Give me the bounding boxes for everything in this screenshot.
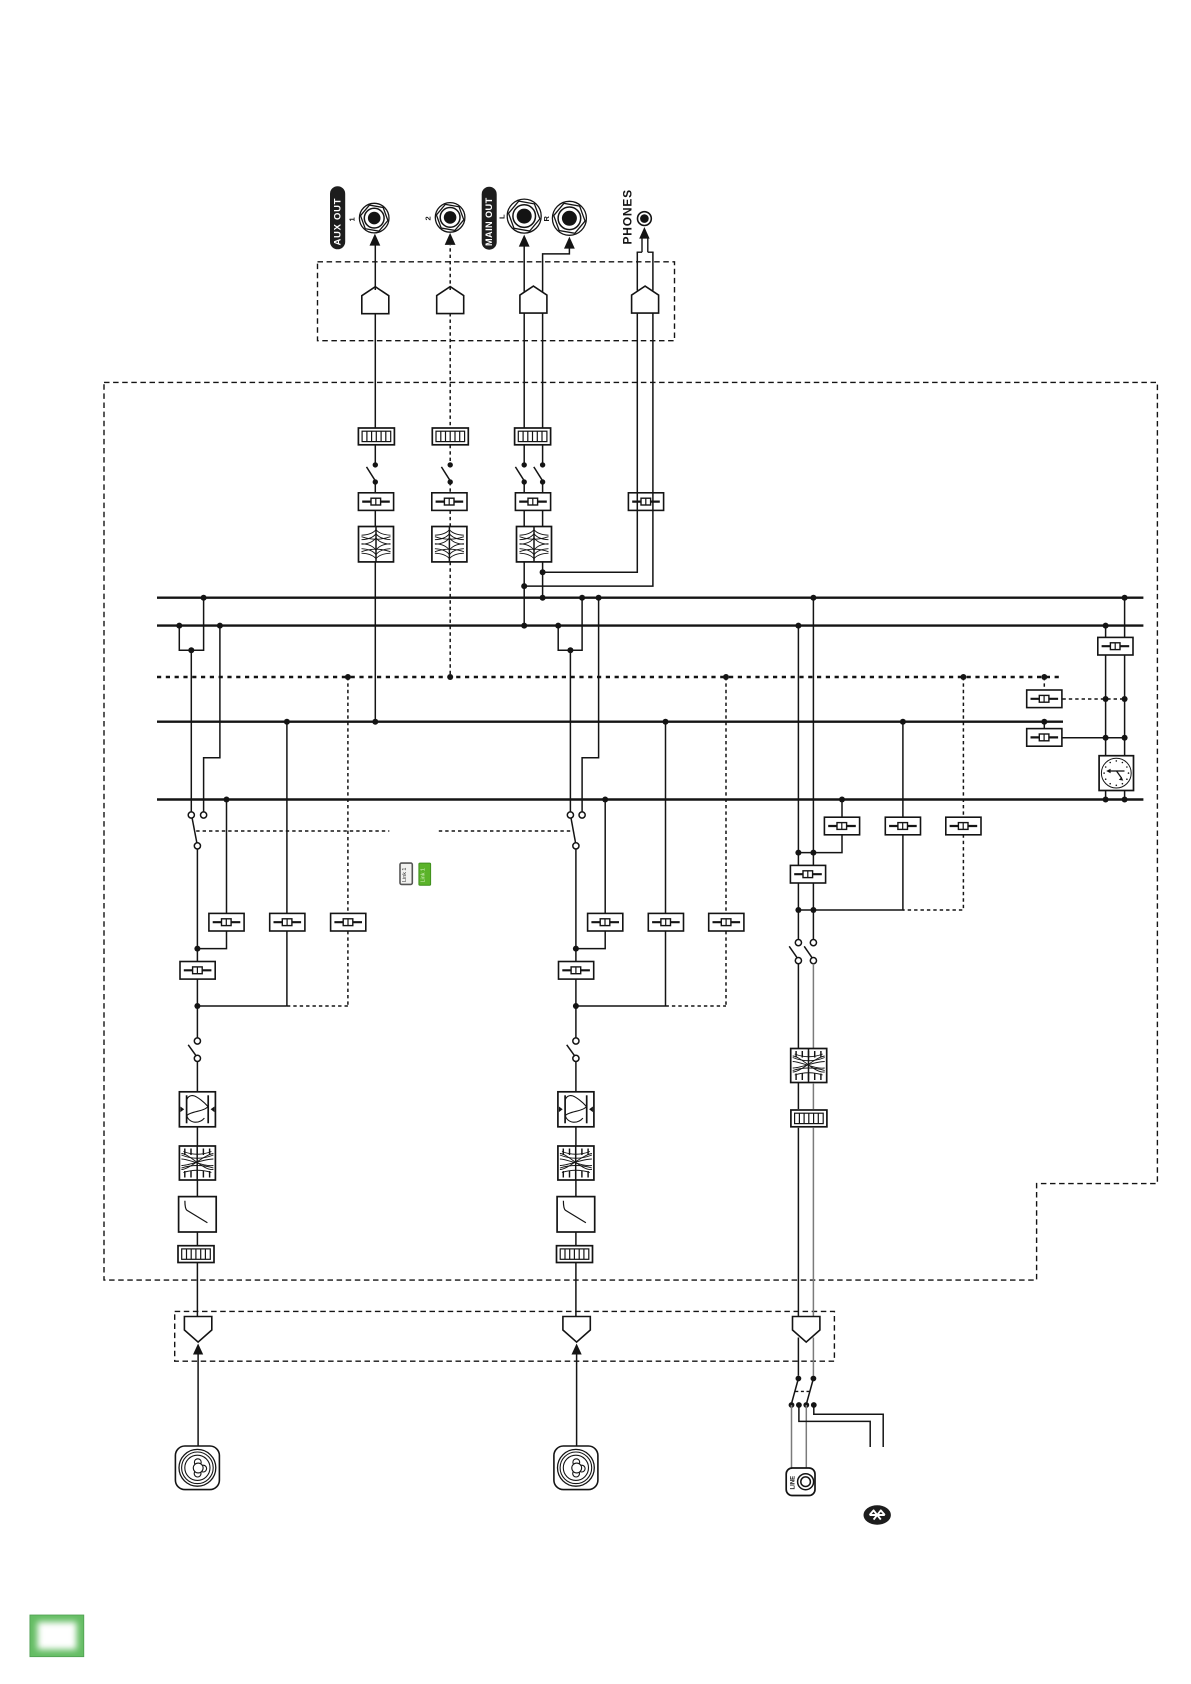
wire fader AUX1 to EQ [374, 511, 376, 527]
svg-text:MAIN OUT: MAIN OUT [484, 197, 494, 246]
jack AUX OUT 1 [358, 203, 390, 233]
junction main L on bus 2 [521, 623, 527, 629]
wire ch2 filter to meter [575, 1232, 577, 1246]
switch AUX OUT 1 [367, 462, 378, 485]
switch AUX OUT 2 [441, 462, 453, 485]
junction ch1 pre-fader tap [194, 946, 200, 952]
junction dashed on FX L [1103, 696, 1109, 702]
junction stereo aux1 to R [810, 850, 816, 856]
svg-text:1: 1 [348, 217, 357, 221]
fader FX to monitor bus [1027, 729, 1062, 747]
junction ch2 jog on bus 1 [596, 595, 602, 601]
low cut filter ch2 [557, 1197, 595, 1232]
wire amp MAIN L down [523, 314, 525, 429]
wire stereo R preamp to switch (grey) [812, 1338, 814, 1376]
arrow to jack MAIN OUT R [564, 237, 575, 249]
arrow stub to jack PHONES (stereo) [637, 227, 654, 291]
wire phones R tap [524, 493, 653, 586]
Bluetooth logo [864, 1505, 891, 1524]
wire amp MAIN R down [542, 314, 544, 429]
arrow to jack MAIN OUT L [519, 235, 530, 292]
wire ch2 switch pole down [575, 849, 577, 1038]
wire solid fader from bus 4 [1043, 722, 1045, 729]
LINE connector [786, 1468, 815, 1496]
fader ch2 aux2 send [648, 913, 683, 931]
meter MAIN OUT [515, 428, 551, 445]
junction main R to phones [540, 569, 546, 575]
wire stereo R switch to EQ (grey) [812, 964, 814, 1048]
wire ch1 switch pole down [196, 849, 198, 1038]
junction dashed on FX R [1122, 696, 1128, 702]
input preamp dashed box [175, 1311, 835, 1361]
junction ch2 pre-fader tap [573, 946, 579, 952]
MAIN OUT label pill [482, 187, 497, 250]
junction ch2 aux1 on bus 5 [602, 797, 608, 803]
arrow into preamp ch2 [572, 1344, 582, 1355]
preamp ch2 [563, 1317, 590, 1343]
fader ch1 aux2 send [270, 913, 305, 931]
wire ch1 aux2 fader to post junction [286, 931, 288, 1006]
wire amp PHONES R down [652, 314, 654, 493]
wire ch1 U to switch contact [190, 650, 192, 812]
wire ch2 jack to preamp [576, 1355, 578, 1447]
wire ch2 bus assign U [558, 598, 582, 651]
brand logo [30, 1615, 84, 1657]
wire ch1 EQ to filter [196, 1180, 198, 1197]
AUX OUT label pill [330, 186, 345, 249]
amp MAIN OUT [520, 286, 547, 313]
wire stereo L from bus 2 down [797, 626, 799, 943]
wire fader AUX2 to EQ (dashed) [449, 511, 451, 527]
EQ ch2 [558, 1146, 594, 1180]
wire ch2 U to switch contact [569, 650, 571, 812]
fader ch2 level [559, 962, 594, 980]
wire ch2 compressor to EQ [575, 1127, 577, 1146]
wire stereo L EQ to meter [797, 1083, 799, 1109]
low cut filter ch1 [179, 1197, 217, 1232]
junction solid on FX L [1103, 735, 1109, 741]
wire amp MAIN to jack R (bend) [543, 248, 570, 292]
bus 3 (FX bus, dotted) [157, 676, 1063, 678]
wire FX R out to bus 5 [1124, 791, 1126, 800]
junction stereo aux2 to R [810, 907, 816, 913]
wire stereo L switch to EQ [797, 964, 799, 1048]
wire EQ AUX2 down to bus 3 (dashed) [449, 562, 451, 677]
switch line/BT L [792, 1376, 802, 1403]
wire ch2 jog from bus 1 [582, 598, 599, 812]
preamp stereo [793, 1317, 820, 1343]
switch ch2 assign [567, 812, 585, 849]
jack AUX OUT 2 [434, 203, 466, 233]
junction ch1 fx on bus 3 [345, 674, 351, 680]
wire ch2 aux1 send from bus 5 [604, 800, 606, 914]
output amplifier dashed box [318, 262, 675, 341]
junction stereo aux2 to L [795, 907, 801, 913]
svg-text:L: L [498, 214, 507, 219]
wire meter MAIN to switches [524, 445, 542, 465]
wire switches MAIN to fader [524, 482, 542, 493]
fader FX to fx-bus (dashed) [1027, 690, 1062, 708]
wire FX L down [1105, 655, 1107, 756]
amp PHONES [632, 286, 659, 313]
fader ch1 fx send [331, 913, 366, 931]
wire ch1 jack to preamp [197, 1355, 199, 1447]
svg-text:AUX OUT: AUX OUT [333, 198, 344, 246]
junction stereo fx on bus 3 [960, 674, 966, 680]
wire amp AUX2 down to meter (dashed) [449, 313, 451, 428]
meter stereo [791, 1110, 827, 1127]
wire ch2 pre-fader tap to aux1 fader [576, 931, 605, 949]
wire solid fader to FX lines [1062, 737, 1124, 739]
svg-text:LINE: LINE [790, 1476, 796, 1490]
fader ch2 fx send [709, 913, 744, 931]
wire ch1 fx send from bus 3 (dashed) [347, 677, 349, 913]
switch MAIN R [534, 462, 546, 485]
junction ch1 aux1 on bus 5 [224, 797, 230, 803]
wire amp AUX1 down to meter [374, 314, 376, 428]
amp AUX OUT 2 [437, 287, 464, 314]
fader ch1 aux1 send [209, 913, 244, 931]
bus 5 (aux bus) [157, 798, 1143, 800]
svg-text:Link 1: Link 1 [421, 868, 427, 882]
fader FX input level [1098, 637, 1133, 655]
wire BT L contact stub [799, 1405, 870, 1447]
bus 2 (main L bus) [157, 624, 1143, 626]
svg-text:Link 1: Link 1 [402, 868, 408, 882]
wire ch1 meter to preamp [196, 1262, 198, 1316]
junction ch1 U mid [188, 647, 194, 653]
wire meter AUX2 to switch (dashed) [449, 445, 451, 465]
wire ch1 aux1 send from bus 5 [226, 800, 228, 914]
meter AUX OUT 1 [358, 428, 394, 445]
wire amp PHONES L down [636, 314, 638, 493]
wire stereo aux2 send from bus 4 [902, 722, 904, 818]
wire EQ AUX1 down to bus 4 [374, 562, 376, 722]
wire dashed fader to FX lines [1062, 698, 1124, 700]
junction stereo R on bus 1 [810, 595, 816, 601]
wire ch2 meter to preamp [575, 1262, 577, 1316]
junction ch2 fx on bus 3 [723, 674, 729, 680]
wire ch1 switch to compressor [196, 1062, 198, 1092]
wire ch2 aux2 fader to post junction [665, 931, 667, 1006]
junction AUX1 on bus 4 [372, 719, 378, 725]
wire stereo L meter to preamp [797, 1128, 799, 1320]
wire switch AUX1 to fader [374, 482, 376, 493]
wire link between line/BT switches (dashed) [795, 1390, 810, 1392]
meter ch2 [557, 1246, 593, 1263]
wire FX R down [1124, 655, 1126, 756]
junction ch2 post-fader [573, 1003, 579, 1009]
fader PHONES [628, 493, 663, 511]
fader stereo aux2 send [885, 817, 920, 835]
switch ch1 insert [188, 1038, 200, 1062]
contact line L [789, 1402, 795, 1408]
wire ch2 post-fader to aux2 [576, 1005, 666, 1007]
amp AUX OUT 1 [362, 287, 389, 314]
bus 4 (monitor bus) [157, 721, 1063, 723]
switch ch2 insert [567, 1038, 579, 1062]
switch stereo L [789, 940, 801, 964]
wire ch2 EQ to filter [575, 1180, 577, 1197]
junction ch1 U on bus 1 [201, 595, 207, 601]
junction ch2 U on bus 1 [579, 595, 585, 601]
switch stereo R [804, 940, 816, 964]
combo jack ch1 [175, 1446, 219, 1490]
wire ch2 fx fader to post junction (dashed) [725, 931, 727, 1006]
fader stereo aux1 send [824, 817, 859, 835]
contact BT R [811, 1402, 817, 1408]
Link 1 button green [419, 863, 431, 885]
junction ch1 aux2 on bus 4 [284, 719, 290, 725]
meter AUX OUT 2 [432, 428, 468, 445]
EQ AUX OUT 1 [359, 527, 394, 562]
junction right L on bus 2 [1103, 623, 1109, 629]
wire stereo aux2 fader to lines [798, 834, 903, 910]
wire phones L tap [543, 493, 638, 573]
wire ch1 post-fader to fx (dashed) [287, 1005, 348, 1007]
wire stereo aux1 send from bus 5 [841, 800, 843, 818]
fader stereo level [790, 865, 825, 883]
junction stereo aux1 on bus 5 [839, 797, 845, 803]
wire stereo R from bus 1 down [812, 598, 814, 943]
wire ch1 compressor to EQ [196, 1127, 198, 1146]
compressor ch1 [179, 1092, 215, 1127]
EQ ch1 [179, 1146, 215, 1180]
wire EQ MAIN R down to bus 1 [542, 562, 544, 598]
combo jack ch2 [554, 1446, 598, 1490]
junction ch1 U on bus 2 [176, 623, 182, 629]
wire stereo aux1 fader to lines [798, 834, 842, 852]
contact line R [803, 1402, 809, 1408]
wire right R from bus 1 [1124, 598, 1126, 638]
compressor ch2 [558, 1092, 594, 1127]
junction ch2 U mid [567, 647, 573, 653]
switch line/BT R [807, 1376, 817, 1403]
junction stereo aux1 to L [795, 850, 801, 856]
wire FX L out to bus 5 [1105, 791, 1107, 800]
switch ch1 assign [188, 812, 207, 849]
fader stereo fx send [946, 817, 981, 835]
svg-text:PHONES: PHONES [621, 189, 635, 244]
junction ch1 jog on bus 2 [217, 623, 223, 629]
fader ch1 level [180, 962, 215, 980]
fader AUX OUT 1 [358, 493, 393, 511]
svg-text:2: 2 [424, 216, 433, 220]
junction on bus 4 [1041, 719, 1047, 725]
junction FX L on bus 5 [1103, 797, 1109, 803]
EQ MAIN OUT [517, 527, 552, 562]
junction stereo aux2 on bus 4 [900, 719, 906, 725]
wire ch1 jog from bus 2 [204, 626, 220, 812]
junction right R on bus 1 [1122, 595, 1128, 601]
wire ch2 post-fader to fx (dashed) [666, 1005, 727, 1007]
preamp ch1 [184, 1317, 211, 1343]
wire link ch1 to ch2 (dashed right) [439, 830, 572, 832]
wire stereo L preamp to switch [797, 1338, 799, 1376]
fader MAIN OUT [515, 493, 550, 511]
jack MAIN OUT L [506, 199, 542, 233]
arrow to jack AUX OUT 2 (dashed) [445, 233, 456, 290]
junction AUX2 on bus 3 [447, 674, 453, 680]
wire link ch1 to ch2 (dashed left) [196, 830, 389, 832]
wire stereo R EQ to meter (grey) [812, 1083, 814, 1109]
junction solid on FX R [1122, 735, 1128, 741]
switch MAIN L [515, 462, 527, 485]
wire ch1 fx fader to post junction (dashed) [347, 931, 349, 1006]
svg-text:R: R [542, 216, 551, 222]
wire ch2 aux2 send from bus 4 [665, 722, 667, 914]
Link 1 button grey [400, 863, 412, 884]
wire ch1 aux2 send from bus 4 [286, 722, 288, 914]
EQ stereo [791, 1049, 827, 1083]
wire meter AUX1 to switch [374, 445, 376, 465]
junction FX R on bus 5 [1122, 797, 1128, 803]
wire ch1 filter to meter [196, 1232, 198, 1246]
junction ch2 U on bus 2 [555, 623, 561, 629]
junction ch2 aux2 on bus 4 [663, 719, 669, 725]
wire stereo fx fader to lines (dashed) [903, 834, 964, 910]
junction ch1 post-fader [194, 1003, 200, 1009]
EQ AUX OUT 2 [432, 527, 467, 562]
contact BT L [796, 1402, 802, 1408]
wire ch1 pre-fader tap to aux1 fader [197, 931, 226, 949]
arrow to jack AUX OUT 1 [370, 234, 381, 290]
junction stereo L on bus 2 [795, 623, 801, 629]
DSP main dashed box [104, 382, 1157, 1280]
wire fader MAIN to EQ [524, 511, 542, 527]
wire right L from bus 2 [1105, 626, 1107, 638]
fader ch2 aux1 send [588, 913, 623, 931]
wire ch2 fx send from bus 3 (dashed) [725, 677, 727, 913]
junction main R on bus 1 [540, 595, 546, 601]
fader AUX OUT 2 [432, 493, 467, 511]
bus 1 (main R bus) [157, 597, 1143, 599]
wire FX return dashed from bus 3 [1043, 677, 1045, 690]
wire EQ MAIN L down to bus 2 [523, 562, 525, 626]
jack PHONES [638, 212, 652, 226]
wire BT R contact stub [814, 1405, 883, 1447]
wire ch1 post-fader to aux2 [197, 1005, 287, 1007]
wire line L contact to connector (grey) [791, 1405, 793, 1468]
wire stereo R meter to preamp (grey) [812, 1128, 814, 1320]
jack MAIN OUT R [551, 201, 587, 235]
junction main L to phones [521, 583, 527, 589]
wire line R contact to connector (grey) [805, 1405, 807, 1468]
wire ch2 switch to compressor [575, 1062, 577, 1092]
wire stereo fx send from bus 3 (dashed) [962, 677, 964, 818]
wire ch1 bus assign U [179, 598, 203, 651]
junction on bus 3 [1041, 674, 1047, 680]
FX processor block (clock) [1099, 756, 1133, 791]
arrow into preamp ch1 [193, 1344, 203, 1355]
wire switch AUX2 to fader (dashed) [449, 482, 451, 493]
meter ch1 [178, 1246, 214, 1263]
